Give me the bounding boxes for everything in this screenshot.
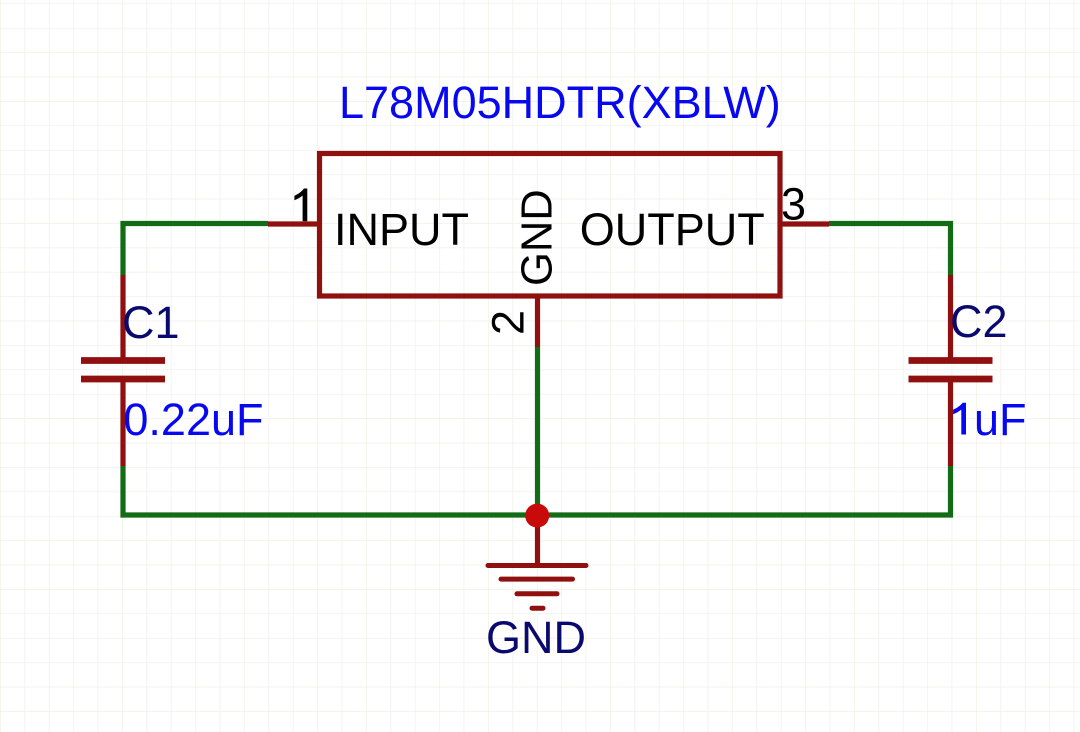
pin 3 stub [779,221,829,226]
wire net VIN left top [123,224,268,276]
pin 2 stub [535,297,540,347]
svg-text:2: 2 [483,310,534,335]
capacitor C2 plate bottom [909,376,993,383]
capacitor C1 bottom pin [120,382,125,466]
capacitor C1 plate top [81,357,165,364]
svg-text:uF: uF [974,394,1027,445]
junction dot [525,504,549,528]
svg-text:INPUT: INPUT [334,204,469,255]
regulator U1 L78M05 body box [320,154,781,297]
wire net GND bottom right [538,466,951,515]
wire net GND bottom left [123,466,538,515]
capacitor C1 top pin [120,275,125,358]
capacitor C2 bottom pin [948,382,953,466]
svg-text:OUTPUT: OUTPUT [580,204,765,255]
C2 value label 1uF [953,403,966,435]
svg-text:L78M05HDTR(XBLW): L78M05HDTR(XBLW) [339,77,781,128]
capacitor C1 plate bottom [81,376,165,383]
svg-text:GND: GND [514,189,562,286]
svg-text:3: 3 [781,179,806,230]
svg-text:0.22uF: 0.22uF [123,394,263,445]
capacitor C2 plate top [909,357,993,364]
svg-text:GND: GND [486,612,586,663]
pin 1 stub [268,221,318,226]
wire pin2 to ground [535,347,540,515]
ground symbol bar 1 [488,563,586,568]
svg-text:C2: C2 [950,296,1008,347]
ground symbol bar 2 [501,577,573,582]
svg-text:C1: C1 [122,297,180,348]
pin 1 number [294,189,307,222]
wire net VOUT right top [829,224,951,276]
ground symbol bar 4 [532,606,543,611]
capacitor C2 top pin [948,275,953,358]
ground symbol bar 3 [517,591,557,596]
ground symbol stub [535,515,540,566]
